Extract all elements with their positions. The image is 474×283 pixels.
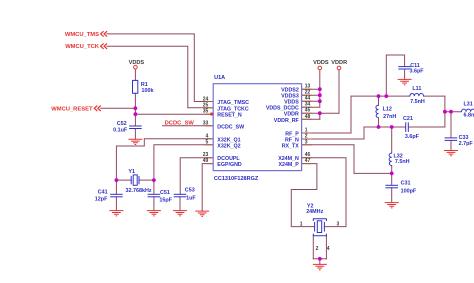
svg-text:DCDC_SW: DCDC_SW	[165, 120, 195, 126]
svg-text:24MHz: 24MHz	[306, 209, 323, 215]
svg-text:3.6pF: 3.6pF	[405, 134, 420, 140]
svg-text:X32K_Q2: X32K_Q2	[217, 143, 240, 149]
svg-text:Y1: Y1	[128, 169, 135, 175]
svg-text:C52: C52	[117, 121, 127, 127]
svg-text:15pF: 15pF	[159, 198, 172, 204]
svg-text:3: 3	[305, 139, 308, 145]
svg-text:3.6pF: 3.6pF	[410, 69, 425, 75]
svg-text:C21: C21	[403, 116, 413, 122]
svg-text:12pF: 12pF	[95, 197, 108, 203]
svg-text:100pF: 100pF	[401, 188, 417, 194]
svg-text:WMCU_TCK: WMCU_TCK	[65, 44, 100, 50]
svg-text:L31: L31	[464, 102, 473, 108]
svg-text:R1: R1	[141, 82, 148, 88]
svg-text:2: 2	[316, 246, 319, 252]
svg-text:C31: C31	[401, 180, 411, 186]
svg-text:100k: 100k	[142, 88, 154, 94]
svg-text:CC1310F128RGZ: CC1310F128RGZ	[214, 176, 259, 182]
svg-text:JTAG_TCKC: JTAG_TCKC	[217, 106, 249, 112]
svg-text:2.7pF: 2.7pF	[459, 141, 474, 147]
svg-text:32.768kHz: 32.768kHz	[126, 188, 152, 194]
svg-text:C53: C53	[185, 188, 195, 194]
svg-text:5: 5	[206, 139, 209, 145]
svg-text:0.1uF: 0.1uF	[113, 128, 128, 134]
svg-text:RESET_N: RESET_N	[217, 113, 242, 119]
svg-text:WMCU_RESET: WMCU_RESET	[51, 106, 93, 112]
svg-text:C41: C41	[98, 189, 108, 195]
svg-text:VDDS: VDDS	[129, 60, 145, 66]
svg-text:X24M_P: X24M_P	[278, 162, 299, 168]
svg-text:33: 33	[203, 120, 209, 126]
svg-text:DCDC_SW: DCDC_SW	[217, 124, 244, 130]
svg-text:45: 45	[305, 108, 311, 114]
svg-text:4: 4	[327, 246, 330, 252]
svg-text:47: 47	[305, 158, 311, 164]
svg-text:RX_TX: RX_TX	[282, 143, 300, 149]
svg-text:3: 3	[337, 221, 340, 227]
svg-text:1uF: 1uF	[186, 195, 196, 201]
svg-text:VDDR: VDDR	[331, 60, 347, 66]
svg-text:7.5nH: 7.5nH	[395, 159, 410, 165]
svg-text:25: 25	[203, 103, 209, 109]
svg-text:WMCU_TMS: WMCU_TMS	[65, 32, 99, 38]
svg-text:35: 35	[203, 109, 209, 115]
svg-text:27nH: 27nH	[383, 114, 396, 120]
svg-text:49: 49	[203, 158, 209, 164]
svg-text:L11: L11	[412, 86, 421, 92]
svg-text:L12: L12	[383, 107, 392, 113]
svg-text:48: 48	[305, 114, 311, 120]
svg-text:JTAG_TMSC: JTAG_TMSC	[217, 100, 249, 106]
svg-text:24: 24	[203, 96, 209, 102]
svg-text:6.8nH: 6.8nH	[464, 113, 474, 119]
svg-text:EGP/GND: EGP/GND	[217, 162, 242, 168]
svg-text:7.5nH: 7.5nH	[410, 99, 425, 105]
svg-text:VDDR_RF: VDDR_RF	[274, 118, 300, 124]
svg-text:1: 1	[300, 221, 303, 227]
svg-text:VDDS: VDDS	[313, 60, 329, 66]
svg-text:U1A: U1A	[214, 75, 225, 81]
svg-text:VDDR: VDDR	[284, 112, 299, 118]
svg-text:C51: C51	[160, 190, 170, 196]
